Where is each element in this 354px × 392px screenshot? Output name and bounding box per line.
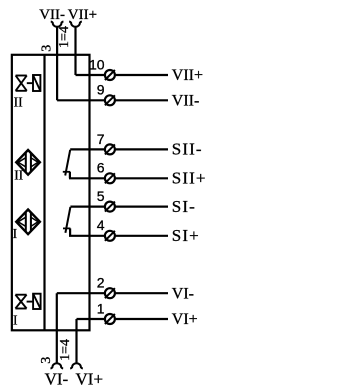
svg-text:6: 6	[97, 160, 105, 176]
diode-box with diagonal	[33, 75, 40, 91]
svg-text:9: 9	[97, 82, 105, 98]
svg-text:I: I	[13, 312, 18, 327]
svg-text:II: II	[14, 167, 23, 182]
svg-text:2: 2	[97, 275, 105, 291]
connector to rect	[27, 301, 33, 303]
wire terminal 7 row	[70, 148, 104, 150]
switch contact SII stub	[69, 172, 71, 179]
svg-text:5: 5	[97, 188, 105, 204]
svg-text:7: 7	[97, 131, 105, 147]
svg-text:10: 10	[89, 56, 105, 72]
terminal 5	[105, 202, 168, 212]
isolation diamond channel II	[16, 150, 40, 175]
svg-text:VI-: VI-	[45, 369, 69, 388]
terminal 6	[105, 173, 168, 183]
switch contact SI blade	[65, 207, 70, 233]
switch contact SI stub	[69, 228, 71, 235]
svg-text:4: 4	[97, 217, 105, 233]
svg-text:VI+: VI+	[76, 369, 104, 388]
switch contact SI tick	[63, 227, 70, 229]
connector socket VI+ (bottom right cup)	[70, 363, 83, 368]
svg-text:SI-: SI-	[172, 197, 196, 216]
terminal 1	[105, 314, 168, 324]
wire VI+ vertical (terminal 1 down)	[75, 319, 77, 363]
wire terminal 4 row	[69, 235, 104, 237]
svg-text:1=4: 1=4	[57, 26, 72, 48]
switch contact SII blade	[65, 150, 70, 176]
svg-text:1: 1	[97, 300, 105, 316]
connector to rect	[27, 82, 33, 84]
terminal 4	[105, 231, 168, 241]
diode-box with diagonal	[33, 294, 41, 309]
wire terminal 6 row	[69, 177, 104, 179]
connector socket VI- (bottom left cup)	[50, 363, 63, 368]
terminal 2	[105, 288, 168, 298]
wire VI- vertical (terminal 2 down)	[56, 293, 58, 363]
svg-text:SII-: SII-	[172, 140, 203, 159]
switch contact SII tick	[63, 171, 70, 173]
svg-text:I: I	[13, 226, 18, 241]
connector socket VII- (top left cup)	[51, 22, 64, 27]
wire VII+ vertical	[74, 27, 76, 75]
svg-text:VII+: VII+	[172, 67, 203, 84]
svg-text:3: 3	[39, 357, 54, 364]
svg-text:SI+: SI+	[172, 226, 200, 245]
device outline box	[12, 55, 90, 331]
wire terminal 9 row	[57, 99, 104, 101]
svg-text:II: II	[14, 95, 23, 110]
wire terminal 10 row	[76, 74, 105, 76]
compartment divider line	[43, 55, 45, 331]
svg-text:SII+: SII+	[172, 169, 207, 188]
wire terminal 2 row	[57, 292, 105, 294]
svg-text:VII-: VII-	[39, 7, 65, 23]
wire VII- vertical	[56, 27, 58, 101]
svg-text:3: 3	[39, 45, 54, 52]
fuse-limiter symbol channel II (hourglass)	[16, 75, 41, 91]
svg-text:1=4: 1=4	[58, 339, 73, 361]
terminal 10	[105, 70, 168, 80]
isolation diamond channel I	[16, 210, 40, 235]
connector socket VII+ (top right cup)	[69, 22, 82, 27]
fuse-limiter symbol channel I (hourglass)	[15, 294, 40, 309]
svg-text:VII+: VII+	[68, 7, 97, 23]
svg-text:VII-: VII-	[172, 93, 200, 110]
terminal 9	[105, 95, 168, 105]
wire terminal 1 row	[77, 318, 105, 320]
terminal 7	[105, 144, 168, 154]
svg-text:VI+: VI+	[172, 311, 198, 328]
svg-text:VI-: VI-	[172, 285, 194, 302]
wire terminal 5 row	[70, 206, 104, 208]
